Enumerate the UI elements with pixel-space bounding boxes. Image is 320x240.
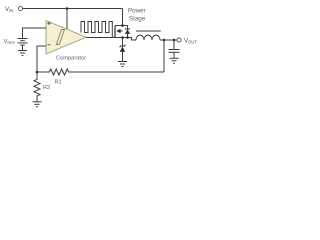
wire feedback vertical: [163, 40, 165, 72]
wire - input: [37, 46, 46, 72]
op-amp U1 comparator body: [46, 21, 86, 55]
node junction top rail: [121, 24, 124, 27]
terminal VOUT: [177, 38, 181, 42]
wire cap branch: [173, 40, 175, 49]
battery VREF: [18, 39, 28, 46]
svg-text:R1: R1: [55, 80, 62, 86]
transistor Q1 arrow: [116, 29, 120, 34]
resistor R1: [48, 69, 70, 75]
wire switch node rail: [115, 38, 136, 41]
wire R2 to ground: [36, 97, 38, 102]
capacitor C1: [169, 50, 180, 53]
wire switch node down: [122, 38, 124, 46]
ground under VREF: [18, 51, 27, 56]
wire + input: [23, 28, 47, 39]
wire feedback horizontal: [70, 71, 164, 73]
wire power stage top rail: [115, 25, 128, 27]
ground under C1: [170, 58, 179, 63]
svg-text:VIN: VIN: [5, 6, 13, 13]
pin - label: [47, 44, 50, 46]
wire comparator supply: [66, 9, 68, 30]
diode D2 body diode: [125, 26, 130, 38]
wire inductor to output: [160, 39, 177, 41]
node VIN label: [5, 6, 13, 13]
ground under R2: [33, 102, 42, 107]
svg-text:Comparator: Comparator: [56, 56, 86, 62]
wire comparator output: [86, 37, 115, 39]
svg-text:VOUT: VOUT: [184, 38, 197, 45]
inductor L1 core line: [136, 30, 161, 32]
inductor L1: [136, 35, 160, 40]
wire cap to ground: [173, 52, 175, 58]
svg-text:Power: Power: [128, 8, 146, 15]
pin + label: [47, 22, 50, 25]
node junction output cap tap: [173, 39, 176, 42]
power stage label: [128, 8, 146, 23]
svg-text:R2: R2: [43, 85, 50, 91]
transistor Q1 power PMOS channel: [114, 26, 116, 38]
wire R1 to node: [37, 71, 48, 73]
svg-text:Stage: Stage: [129, 16, 146, 23]
wire VIN down to power stage: [122, 9, 124, 26]
wire VIN top rail: [23, 8, 123, 10]
node junction feedback divider: [36, 71, 39, 74]
resistor R2: [34, 78, 40, 97]
node junction feedback tap: [163, 39, 166, 42]
node junction switch to body diode: [126, 36, 129, 39]
node junction switch to diode: [121, 36, 124, 39]
node junction comparator supply: [66, 7, 69, 10]
diode D1 catch schottky: [120, 45, 125, 62]
hysteresis symbol: [56, 30, 64, 45]
ground under D1: [118, 62, 127, 67]
wire node to R2: [36, 72, 38, 78]
terminal VIN: [18, 6, 22, 10]
transistor Q1 arrow stub: [121, 30, 123, 32]
svg-text:VREF: VREF: [4, 39, 16, 45]
PWM waveform symbol: [81, 22, 112, 38]
wire battery to ground: [22, 45, 24, 50]
